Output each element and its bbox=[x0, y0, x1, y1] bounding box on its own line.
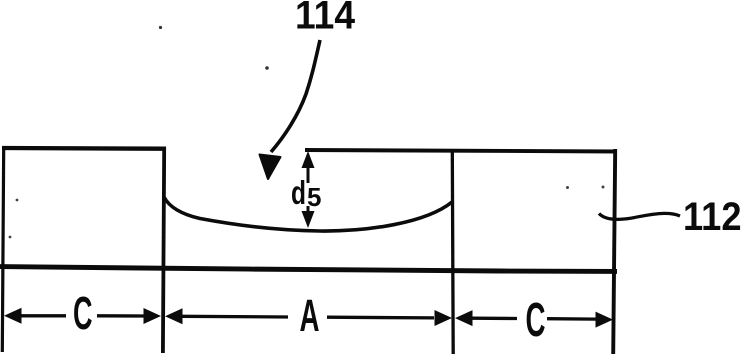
dimension C left: left arrowhead bbox=[4, 308, 22, 324]
dimension C left: right arrowhead bbox=[144, 308, 162, 324]
dimension C right: left arrowhead bbox=[455, 310, 473, 326]
dimension C left: left shaft bbox=[20, 314, 66, 317]
svg-text:A: A bbox=[300, 290, 320, 341]
top surface line right of recess bbox=[305, 150, 617, 152]
svg-text:d: d bbox=[291, 174, 306, 211]
dimension C left: right shaft bbox=[97, 314, 147, 318]
d5 dimension up arrowhead bbox=[302, 151, 315, 168]
stray scan speck bbox=[159, 26, 162, 29]
dimension C right: right shaft bbox=[547, 317, 596, 321]
bottom layer horizontal line bbox=[0, 267, 617, 272]
svg-text:112: 112 bbox=[683, 195, 741, 239]
left block left vertical edge bbox=[2, 146, 3, 352]
dimension A: left arrowhead bbox=[165, 308, 183, 324]
svg-text:114: 114 bbox=[295, 0, 356, 38]
dimension A: left shaft bbox=[181, 315, 288, 319]
d5 dimension lower shaft bbox=[307, 206, 310, 214]
arrowhead of 114 leader bbox=[260, 155, 281, 180]
stray scan speck bbox=[16, 199, 19, 202]
stray scan speck bbox=[566, 186, 569, 189]
stray scan speck bbox=[9, 236, 12, 239]
d5 dimension down arrowhead bbox=[302, 211, 315, 228]
right block left vertical edge bbox=[451, 151, 455, 355]
dimension C right: right arrowhead bbox=[596, 312, 614, 328]
left block right vertical edge bbox=[163, 147, 164, 354]
left block top edge bbox=[2, 146, 164, 151]
dimension A: right arrowhead bbox=[435, 310, 453, 326]
leader line from 114 bbox=[271, 40, 320, 152]
right block right vertical edge bbox=[613, 149, 615, 354]
stray scan speck bbox=[602, 186, 605, 189]
svg-text:C: C bbox=[526, 294, 546, 347]
recess concave curve bbox=[164, 197, 452, 231]
dimension A: right shaft bbox=[327, 316, 434, 320]
d5 dimension upper shaft bbox=[307, 166, 310, 183]
dimension C right: left shaft bbox=[471, 317, 517, 321]
stray scan speck bbox=[265, 66, 269, 70]
leader line of 112 bbox=[599, 213, 680, 219]
svg-text:C: C bbox=[73, 287, 93, 339]
